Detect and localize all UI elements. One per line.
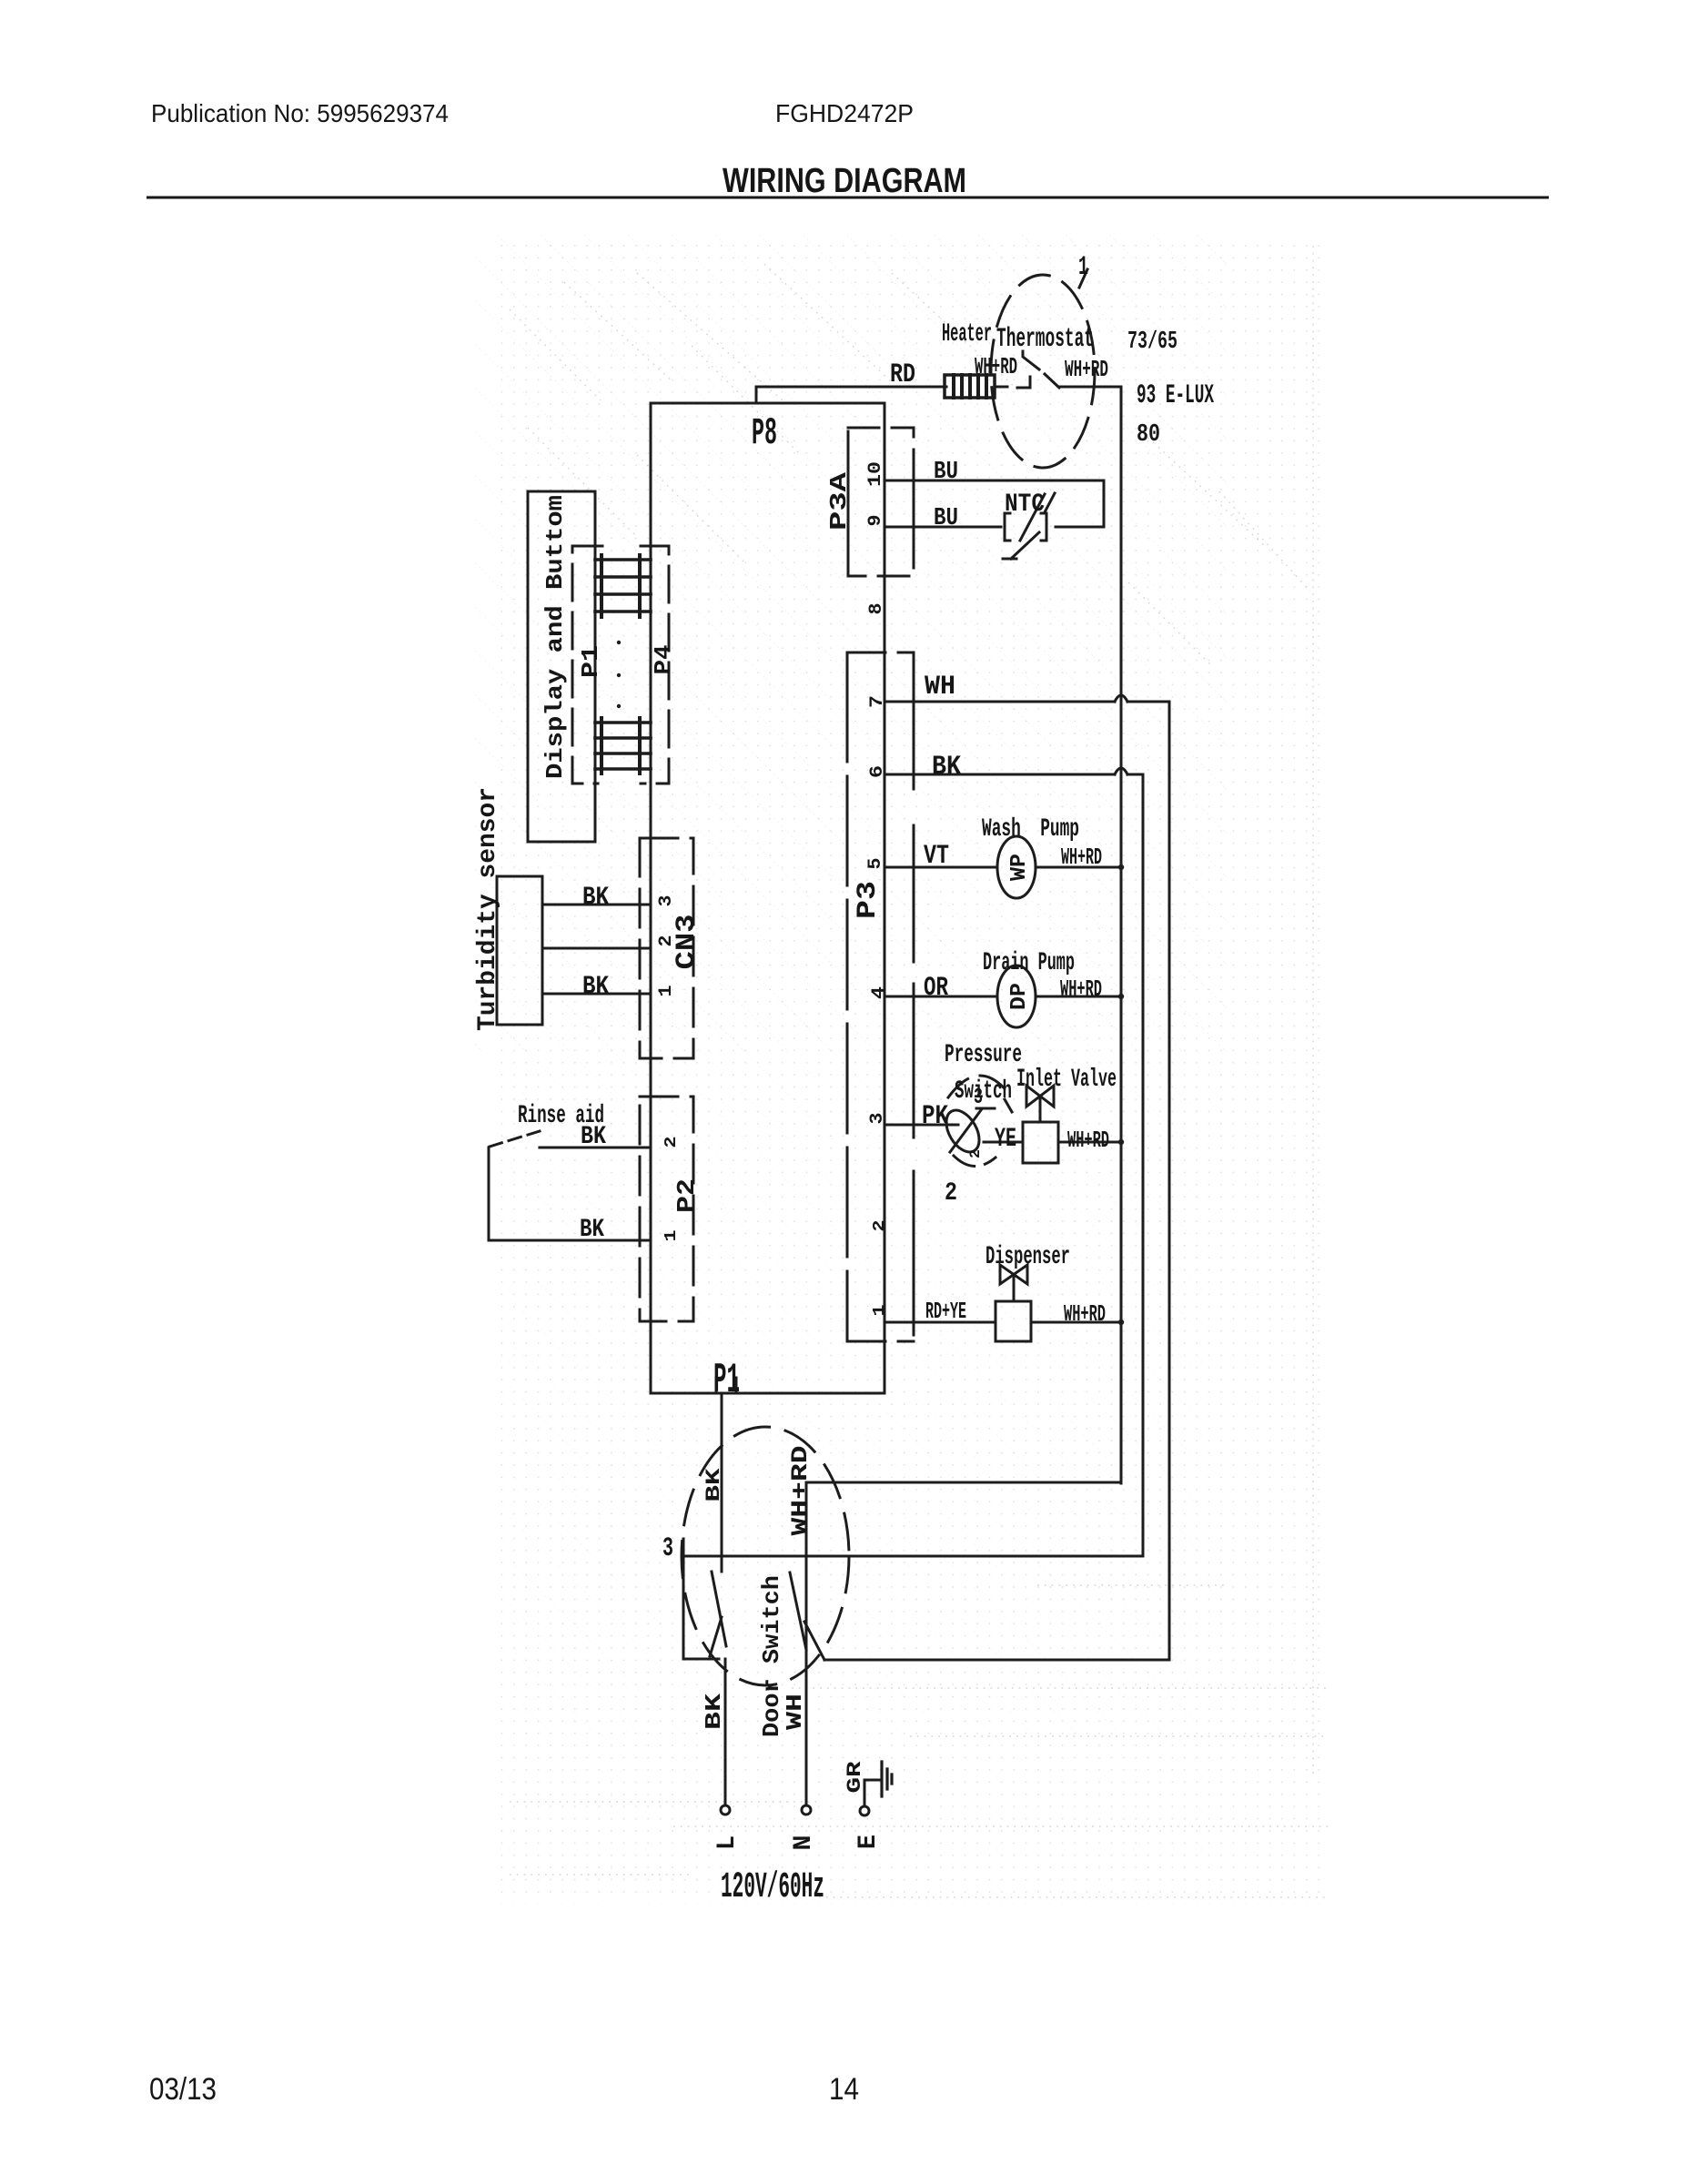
svg-text:Display and Buttom: Display and Buttom [541, 495, 569, 779]
svg-text:93 E-LUX: 93 E-LUX [1137, 380, 1214, 411]
display unit box [528, 491, 595, 842]
svg-text:3: 3 [656, 895, 677, 907]
svg-text:E: E [854, 1835, 883, 1849]
label pin 8 [866, 603, 887, 615]
label 2 pressure switch contact [967, 1149, 984, 1158]
label WP [1007, 854, 1032, 881]
label P3A [825, 471, 853, 531]
svg-text:1: 1 [656, 986, 677, 997]
thermostat dashed circle [991, 275, 1095, 468]
wire BU pin10 [884, 480, 1104, 482]
svg-text:BK: BK [702, 1693, 727, 1730]
svg-text:1: 1 [662, 1229, 681, 1241]
svg-text:Door Switch: Door Switch [758, 1575, 785, 1737]
NTC thermistor [1005, 513, 1010, 541]
svg-text:VT: VT [924, 841, 949, 872]
connector P4 dashed bracket [641, 546, 669, 784]
wire RD+YE pin1 [884, 1321, 996, 1324]
label L [713, 1835, 742, 1850]
wire OR pin4 [884, 996, 997, 998]
wire WH pin7 [884, 701, 1169, 703]
wire BK to terminal L [724, 1659, 727, 1805]
label P3 pin 5 [865, 858, 886, 870]
label DP [1007, 983, 1032, 1010]
svg-text:4: 4 [869, 986, 890, 999]
label BK door upper [702, 1467, 725, 1501]
svg-text:P3: P3 [853, 881, 884, 919]
svg-text:BK: BK [582, 884, 609, 912]
svg-text:2: 2 [871, 1220, 889, 1232]
heater resistor [945, 375, 995, 398]
svg-text:2: 2 [662, 1137, 681, 1148]
wire VT pin5 [884, 866, 997, 869]
door switch common line [683, 1555, 1143, 1558]
connector P2 dashed outline [640, 1097, 693, 1321]
connector P3A dashed outline [848, 428, 914, 576]
thermostat contact [1017, 377, 1030, 388]
connector pin bar P4 side [638, 555, 642, 773]
wire rinse aid loop [488, 1148, 490, 1240]
svg-text:RD+YE: RD+YE [925, 1298, 966, 1325]
svg-text:Thermostat: Thermostat [996, 324, 1094, 355]
svg-text:N: N [790, 1835, 818, 1851]
turbidity sensor box [497, 876, 542, 1025]
wire WH+RD drain pump [1036, 996, 1121, 998]
svg-text:FGHD2472P: FGHD2472P [775, 99, 914, 127]
wire WH+RD door switch to rail [806, 1482, 1121, 1572]
wire GR [864, 1780, 882, 1806]
wire NTC loop [1103, 480, 1106, 527]
svg-text:BU: BU [934, 459, 958, 486]
label P2 [674, 1178, 702, 1213]
rail WH+RD right [1120, 387, 1123, 1483]
label P3 pin 3 [867, 1113, 888, 1125]
svg-text:OR: OR [924, 973, 948, 1004]
door switch blade BK [712, 1572, 726, 1646]
label P1 connector [577, 645, 604, 678]
svg-text:YE: YE [995, 1124, 1016, 1155]
svg-text:BK: BK [580, 1216, 604, 1244]
label P3 pin 2 [871, 1220, 889, 1232]
label P3 [853, 881, 884, 919]
callout 1 pointer [1079, 269, 1087, 288]
label CN3 pin 2 [656, 935, 677, 947]
wire PK pin3 [884, 1124, 958, 1127]
wire WH+RD thermostat to right rail [1059, 386, 1121, 389]
svg-text:2: 2 [967, 1149, 984, 1158]
label WH+RD door [787, 1446, 814, 1536]
svg-text:P4: P4 [650, 645, 677, 675]
connector pin bar P1 side [600, 555, 603, 773]
terminal L [721, 1805, 730, 1815]
svg-text:Drain Pump: Drain Pump [983, 949, 1075, 977]
svg-text:WH+RD: WH+RD [1065, 356, 1108, 383]
wire turbidity pin2 [542, 947, 651, 950]
svg-text:Turbidity sensor: Turbidity sensor [474, 787, 502, 1031]
svg-text:DP: DP [1007, 983, 1032, 1010]
svg-text:NTC: NTC [1005, 490, 1045, 519]
svg-text:BK: BK [582, 973, 609, 1001]
svg-text:Dispenser: Dispenser [986, 1243, 1070, 1271]
svg-text:WH: WH [925, 672, 955, 703]
wash pump motor WP [997, 836, 1036, 898]
wire rinse aid BK pin1 [489, 1239, 651, 1242]
label CN3 pin 3 [656, 895, 677, 907]
door switch terminal 3 [682, 1539, 685, 1556]
ground symbol [882, 1762, 892, 1796]
label P3 pin 1 [871, 1304, 889, 1316]
svg-text:120V/60Hz: 120V/60Hz [721, 1867, 824, 1908]
svg-text:L: L [713, 1835, 742, 1850]
svg-text:8: 8 [866, 603, 887, 615]
svg-text:1: 1 [1078, 252, 1088, 283]
svg-text:6: 6 [867, 765, 888, 778]
svg-text:WP: WP [1007, 854, 1032, 881]
svg-text:14: 14 [829, 2072, 859, 2107]
wire YE pressure switch to inlet valve [984, 1141, 1023, 1144]
label P4 connector [650, 645, 677, 675]
hop over rail [1115, 695, 1127, 702]
wire BK pin6 [884, 773, 1143, 776]
title rule [147, 197, 1549, 199]
svg-text:BU: BU [934, 505, 958, 532]
main control board box P8 [651, 403, 884, 1393]
door switch blade WH [790, 1572, 806, 1650]
drain pump motor DP [997, 966, 1036, 1027]
svg-text:P1: P1 [577, 645, 604, 678]
rinse aid switch blade [490, 1131, 540, 1147]
svg-text:WH+RD: WH+RD [975, 353, 1017, 380]
label P2 pin 2 [662, 1137, 681, 1148]
terminal E circle [860, 1806, 869, 1815]
svg-text:P8: P8 [752, 411, 777, 455]
svg-text:80: 80 [1137, 421, 1160, 449]
wire N to WH rail [824, 1659, 1169, 1662]
label E [854, 1835, 883, 1849]
svg-text:GR: GR [844, 1760, 866, 1793]
dispenser coil box [996, 1301, 1031, 1341]
door switch left return [683, 1556, 719, 1659]
wire turbidity BK pin1 [542, 993, 651, 996]
svg-text:P2: P2 [674, 1178, 702, 1213]
svg-text:WH+RD: WH+RD [787, 1446, 814, 1536]
label Door Switch [758, 1575, 785, 1737]
wire heater to thermostat [995, 386, 1007, 389]
label P2 pin 1 [662, 1229, 681, 1241]
P3A pin ticks [913, 468, 915, 541]
svg-text:Publication No: 5995629374: Publication No: 5995629374 [151, 99, 449, 127]
rail WH right [1168, 702, 1171, 1659]
dispenser valve symbol [1000, 1265, 1027, 1284]
svg-text:P1: P1 [713, 1357, 740, 1404]
label N [790, 1835, 818, 1851]
label GR [844, 1760, 866, 1793]
svg-text:5: 5 [865, 858, 886, 870]
label P3 pin 6 [867, 765, 888, 778]
connector P3 dashed outline [847, 652, 914, 1341]
door switch dashed circle [682, 1427, 849, 1685]
wire BU pin9 [884, 526, 1104, 529]
svg-text:BK: BK [932, 752, 961, 783]
wire rinse aid BK pin2 [540, 1147, 651, 1149]
svg-text:WH+RD: WH+RD [1067, 1127, 1109, 1154]
svg-text:WIRING DIAGRAM: WIRING DIAGRAM [723, 162, 966, 200]
label Turbidity sensor [474, 787, 502, 1031]
svg-text:2: 2 [945, 1179, 957, 1208]
wire WH+RD dispenser [1031, 1321, 1121, 1324]
svg-text:Heater: Heater [942, 320, 992, 349]
inlet valve coil box [1023, 1122, 1058, 1163]
P3 pin ticks [913, 689, 915, 1335]
svg-text:7: 7 [867, 695, 888, 708]
svg-text:73/65: 73/65 [1127, 329, 1178, 356]
svg-text:3: 3 [867, 1113, 888, 1125]
svg-text:WH+RD: WH+RD [1061, 844, 1102, 871]
label BK door lower [702, 1693, 727, 1730]
label Display and Buttom [541, 495, 569, 779]
svg-text:Inlet Valve: Inlet Valve [1016, 1066, 1117, 1094]
svg-text:1: 1 [871, 1304, 889, 1316]
svg-text:2: 2 [656, 935, 677, 947]
svg-text:BK: BK [581, 1123, 606, 1151]
svg-text:10: 10 [865, 461, 886, 487]
wire BK from P1 to door switch [721, 1393, 723, 1572]
connector P1 dashed bracket [572, 546, 602, 784]
ribbon wires display P1-P4 [595, 560, 651, 769]
svg-text:Pressure: Pressure [945, 1041, 1022, 1069]
svg-text:WH+RD: WH+RD [1064, 1300, 1106, 1328]
label P3A pin 10 [865, 461, 886, 487]
wire WH+RD wash pump [1036, 866, 1121, 869]
label P3A pin 9 [865, 515, 886, 527]
svg-text:9: 9 [865, 515, 886, 527]
connector P3A pin bar [847, 449, 850, 561]
svg-text:BK: BK [702, 1467, 725, 1501]
svg-text:3: 3 [974, 1086, 983, 1110]
svg-text:3: 3 [662, 1533, 673, 1564]
pressure switch [940, 1105, 986, 1158]
label P3 pin 4 [869, 986, 890, 999]
label CN3 pin 1 [656, 986, 677, 997]
P1 pin ticks bottom of board [716, 1378, 736, 1393]
svg-text:WH+RD: WH+RD [1060, 976, 1102, 1003]
label CN3 [672, 915, 702, 970]
label WH door lower [783, 1694, 808, 1730]
svg-text:P3A: P3A [825, 471, 853, 531]
wire WH+RD inlet valve [1058, 1141, 1121, 1144]
wire WH to terminal N [805, 1572, 808, 1805]
svg-text:RD: RD [890, 359, 915, 390]
rail BK right [1142, 774, 1145, 1556]
wire RD heater feed [756, 387, 946, 403]
svg-text:PK: PK [922, 1101, 948, 1132]
hop over rail [1115, 768, 1127, 774]
svg-text:WH: WH [783, 1694, 808, 1730]
terminal N [802, 1805, 811, 1815]
inlet valve symbol [1026, 1086, 1054, 1107]
connector CN3 dashed outline [640, 838, 693, 1058]
svg-text:Wash Pump: Wash Pump [982, 815, 1079, 844]
wire turbidity BK pin3 [542, 904, 651, 906]
svg-text:03/13: 03/13 [149, 2072, 217, 2107]
label P3 pin 7 [867, 695, 888, 708]
svg-text:Switch: Switch [955, 1077, 1012, 1106]
